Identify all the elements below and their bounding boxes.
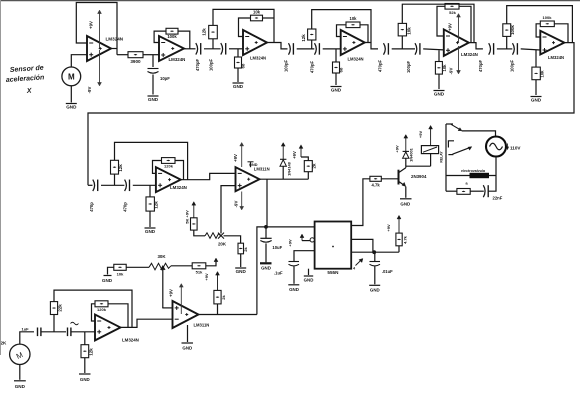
svg-text:4.7k: 4.7k (372, 183, 381, 188)
svg-text:12k: 12k (301, 34, 306, 42)
svg-text:100k: 100k (167, 34, 177, 39)
svg-text:120k: 120k (97, 307, 107, 312)
svg-text:GND: GND (249, 163, 258, 167)
svg-text:GND: GND (304, 278, 314, 283)
svg-text:100pF: 100pF (510, 60, 515, 73)
svg-text:LM324N: LM324N (122, 338, 139, 343)
svg-text:10k: 10k (253, 10, 261, 15)
svg-text:GND: GND (15, 384, 26, 389)
svg-text:1N4001: 1N4001 (409, 147, 414, 161)
svg-text:20K: 20K (218, 242, 227, 247)
svg-text:10k: 10k (540, 70, 545, 78)
svg-text:GND: GND (66, 105, 77, 110)
svg-text:LM324N: LM324N (348, 57, 364, 62)
svg-text:100k: 100k (543, 15, 553, 20)
svg-text:100pF: 100pF (284, 60, 289, 73)
svg-text:GND: GND (261, 266, 271, 271)
svg-text:100pF: 100pF (406, 61, 411, 74)
svg-text:GND: GND (400, 201, 410, 206)
svg-text:470p: 470p (123, 202, 128, 212)
svg-text:12k: 12k (118, 164, 123, 172)
svg-text:LM324N: LM324N (461, 52, 478, 57)
svg-text:GND: GND (531, 98, 542, 103)
svg-text:4.7k: 4.7k (403, 235, 408, 244)
svg-text:10k: 10k (117, 272, 124, 277)
svg-text:3900: 3900 (130, 59, 141, 64)
svg-text:electrovalvula: electrovalvula (461, 169, 486, 173)
svg-text:470pF: 470pF (378, 60, 383, 73)
svg-text:51k: 51k (196, 269, 203, 274)
svg-text:GND: GND (434, 92, 445, 97)
svg-text:GND: GND (233, 84, 244, 89)
svg-text:2k: 2k (243, 247, 248, 252)
svg-text:12k: 12k (154, 201, 159, 209)
svg-text:5K +9V: 5K +9V (185, 210, 190, 224)
svg-text:2k: 2k (221, 295, 226, 300)
svg-text:+9V: +9V (233, 154, 238, 162)
svg-text:470pF: 470pF (195, 59, 200, 72)
svg-text:2k: 2k (312, 163, 317, 168)
svg-text:.1uF: .1uF (274, 271, 283, 276)
svg-text:GND: GND (80, 377, 90, 382)
svg-text:1uF: 1uF (22, 327, 30, 332)
svg-text:M: M (68, 73, 75, 82)
svg-text:LM311N: LM311N (194, 323, 210, 328)
svg-text:GND: GND (148, 97, 159, 102)
svg-text:+9V: +9V (418, 131, 423, 139)
svg-text:+9V: +9V (292, 151, 297, 159)
svg-text:120k: 120k (164, 164, 174, 169)
svg-text:30K: 30K (157, 254, 166, 259)
svg-text:GND: GND (182, 346, 192, 351)
svg-text:GND: GND (102, 278, 113, 283)
svg-text:100pF: 100pF (209, 59, 214, 72)
svg-text:470pF: 470pF (478, 60, 483, 73)
svg-text:22k: 22k (58, 304, 63, 312)
svg-text:10k: 10k (407, 27, 412, 35)
svg-text:LM324N: LM324N (170, 185, 187, 190)
svg-text:68: 68 (339, 67, 344, 72)
svg-text:470p: 470p (89, 202, 94, 212)
svg-text:LM311N: LM311N (254, 166, 270, 171)
svg-text:-9V: -9V (87, 87, 92, 94)
svg-text:LM324N: LM324N (548, 55, 564, 60)
svg-text:52k: 52k (449, 10, 456, 15)
svg-text:100k: 100k (510, 25, 515, 35)
svg-text:+9V: +9V (395, 145, 400, 153)
svg-text:2K: 2K (1, 341, 8, 346)
svg-text:10pF: 10pF (160, 76, 170, 81)
svg-text:10k: 10k (350, 16, 358, 21)
svg-text:68: 68 (241, 63, 246, 68)
svg-text:LM324N: LM324N (106, 37, 124, 42)
svg-text:+9V: +9V (204, 273, 209, 281)
svg-text:GND: GND (145, 229, 156, 234)
svg-text:GND: GND (236, 269, 247, 274)
svg-text:2N3904: 2N3904 (411, 174, 427, 179)
svg-text:470pF: 470pF (310, 61, 315, 74)
svg-text:+9V: +9V (89, 21, 94, 29)
svg-text:+9V: +9V (386, 224, 391, 232)
svg-text:-9V: -9V (234, 201, 239, 208)
svg-text:LM324N: LM324N (169, 57, 186, 62)
svg-text:GND: GND (331, 88, 342, 93)
svg-text:12k: 12k (89, 348, 94, 356)
svg-text:12k: 12k (202, 28, 207, 36)
svg-text:110V: 110V (510, 146, 521, 151)
svg-text:RELAY: RELAY (440, 151, 444, 163)
svg-text:-9V: -9V (449, 68, 454, 75)
svg-text:10k: 10k (442, 64, 447, 72)
svg-text:+9V: +9V (288, 239, 293, 247)
svg-text:1N4148: 1N4148 (287, 161, 292, 175)
svg-text:+9V: +9V (169, 289, 174, 297)
svg-text:LM324N: LM324N (250, 56, 266, 61)
svg-text:.01uF: .01uF (382, 269, 393, 274)
svg-text:555N: 555N (327, 270, 339, 275)
svg-text:10uF: 10uF (272, 245, 282, 250)
svg-text:+9V: +9V (448, 23, 453, 31)
svg-text:22nF: 22nF (493, 196, 503, 201)
svg-text:GND: GND (370, 287, 380, 292)
svg-text:GND: GND (289, 287, 299, 292)
